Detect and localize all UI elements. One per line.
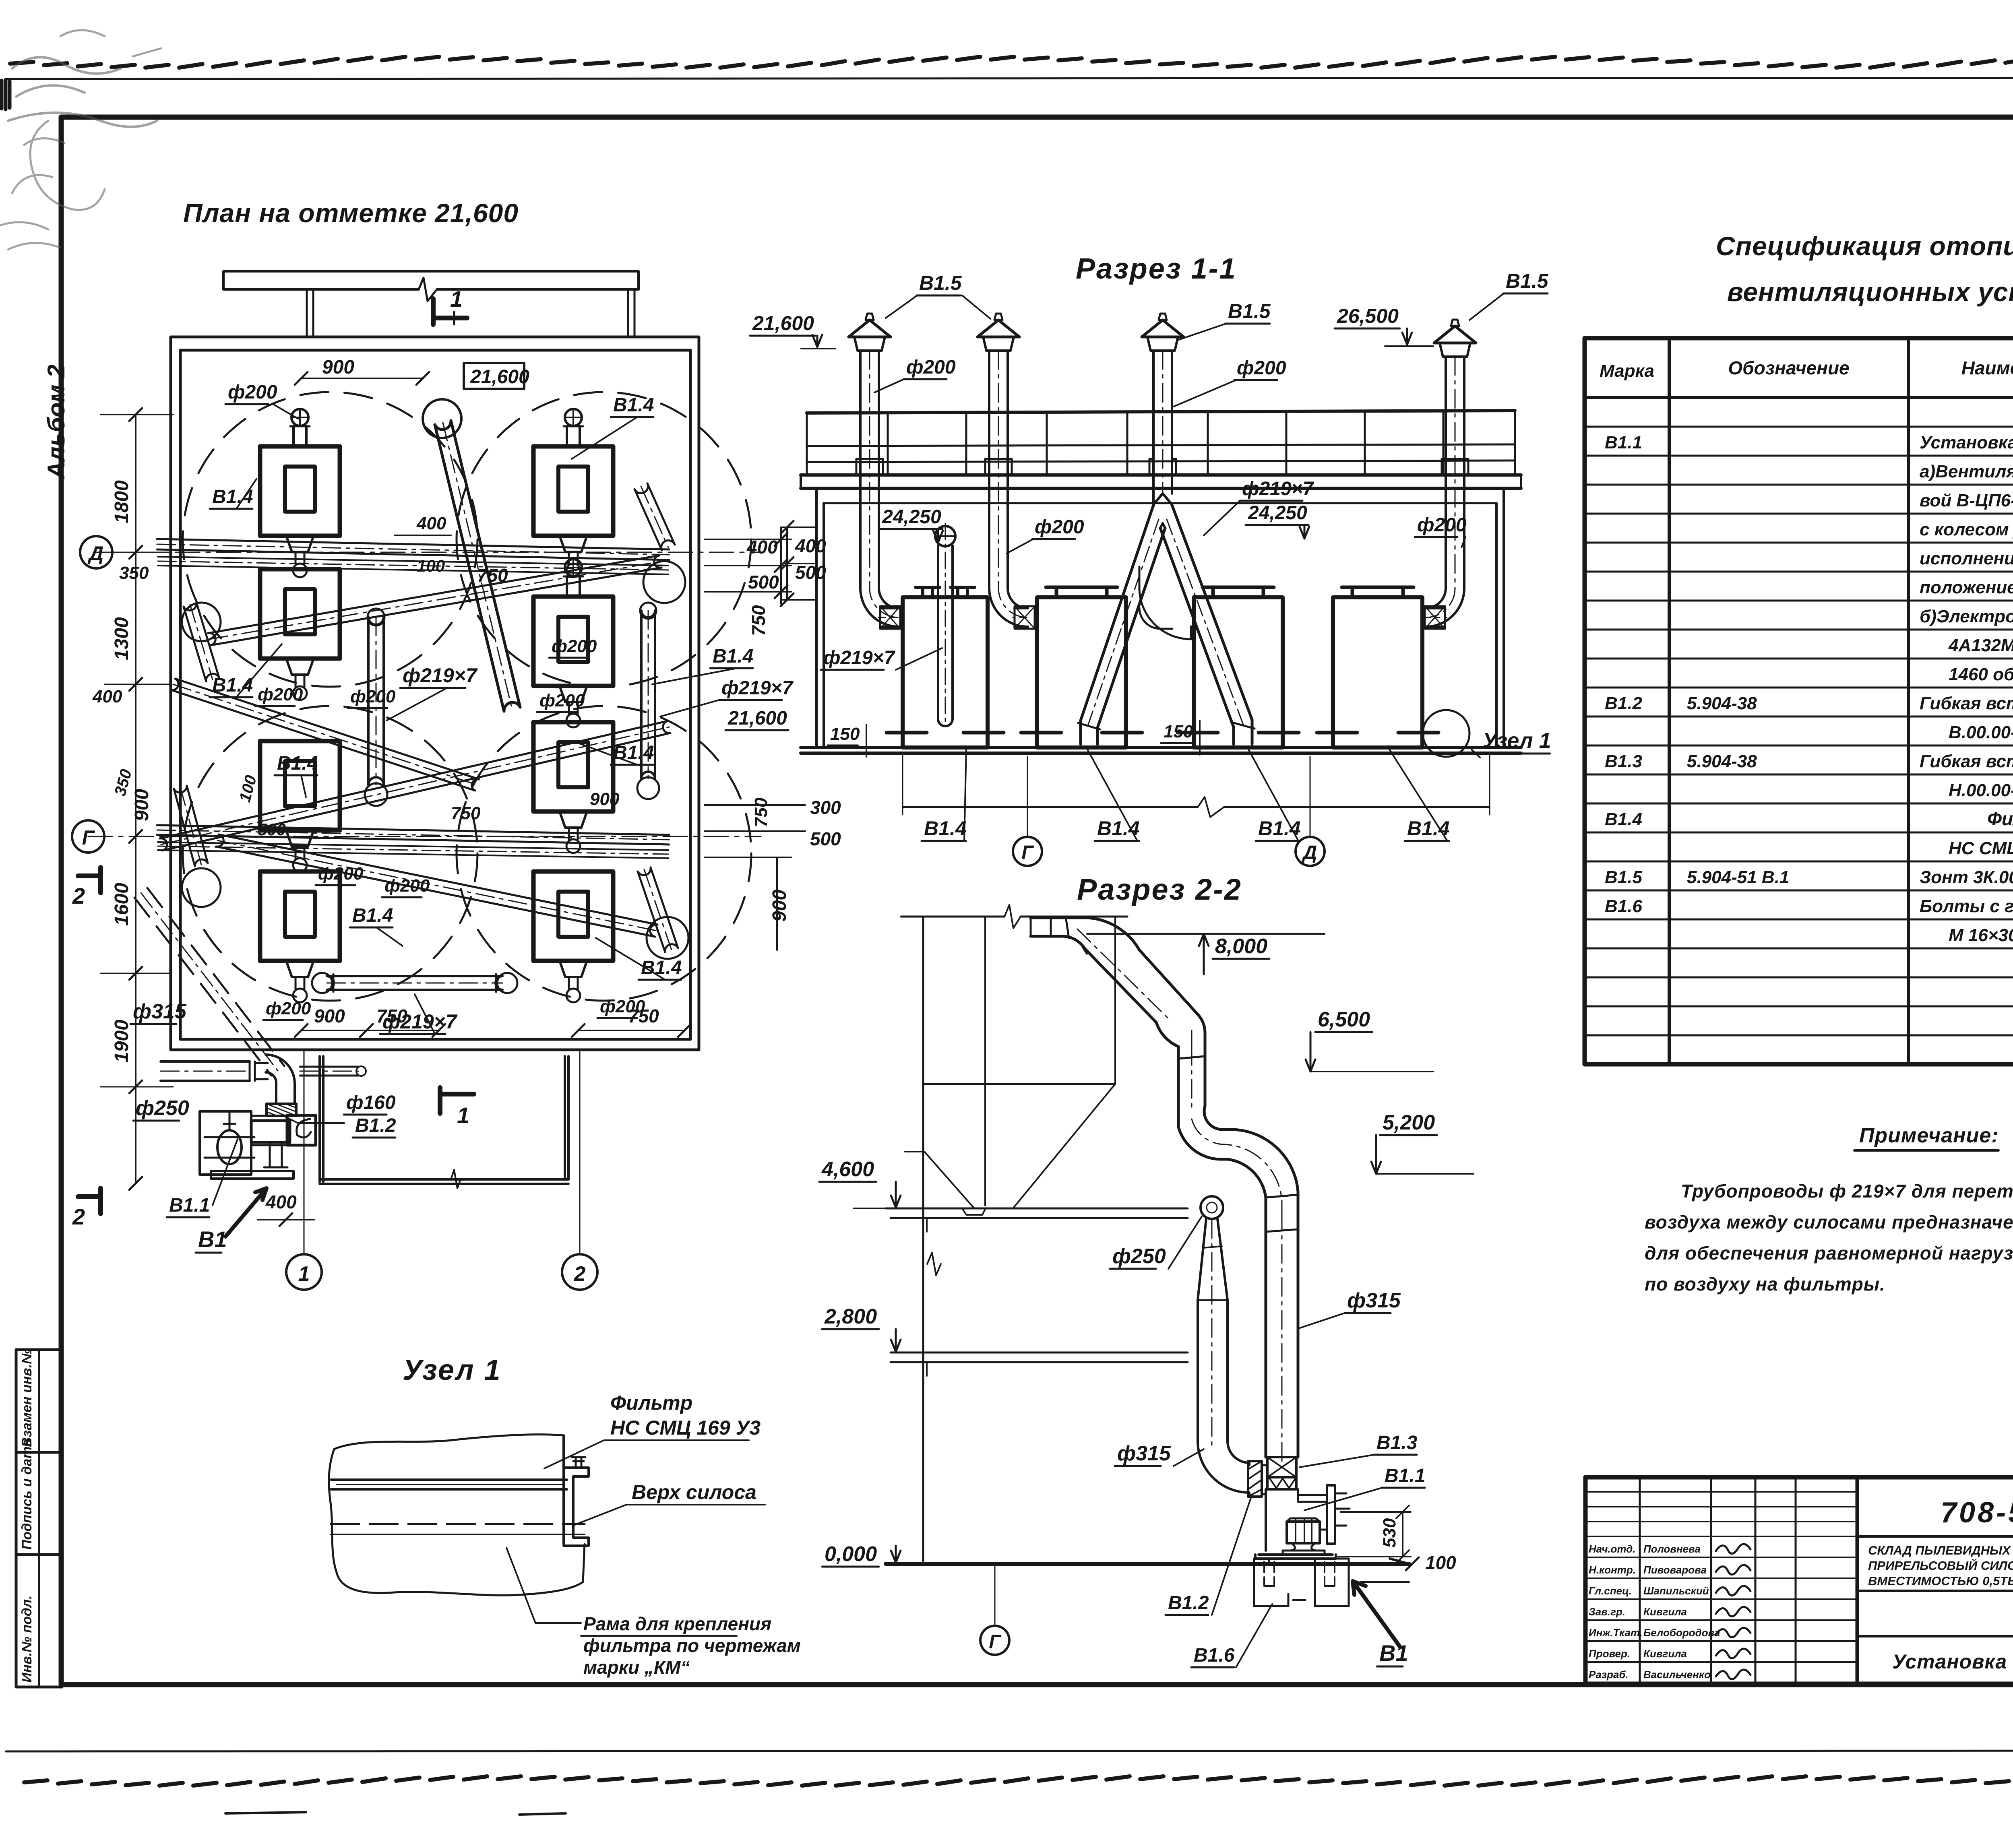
svg-text:Г: Г bbox=[1021, 842, 1034, 863]
svg-text:Зонт 3К.00.00: Зонт 3К.00.00 bbox=[1920, 867, 2013, 887]
svg-text:ф200: ф200 bbox=[318, 864, 364, 884]
svg-text:5.904-51 В.1: 5.904-51 В.1 bbox=[1687, 867, 1789, 887]
rope line bottom bbox=[24, 1776, 2013, 1786]
svg-text:Узел 1: Узел 1 bbox=[403, 1354, 502, 1386]
svg-text:21,600: 21,600 bbox=[470, 366, 529, 388]
svg-text:24,250: 24,250 bbox=[882, 506, 941, 528]
svg-text:В1: В1 bbox=[1379, 1640, 1408, 1666]
motor bbox=[1287, 1522, 1320, 1543]
label rama bbox=[419, 1548, 801, 1678]
horizontal pipe 219x7 bottom bbox=[327, 989, 502, 991]
silo circle bbox=[457, 706, 751, 1001]
fan B1.1 plan bbox=[200, 1111, 316, 1179]
axis G circle s22 bbox=[980, 1626, 1009, 1655]
svg-text:Нач.отд.: Нач.отд. bbox=[1589, 1543, 1636, 1555]
svg-text:5.904-38: 5.904-38 bbox=[1687, 752, 1757, 771]
svg-text:В1.4: В1.4 bbox=[1407, 817, 1450, 840]
dim 900 top bbox=[301, 378, 423, 379]
svg-text:Спецификация отопительно-: Спецификация отопительно- bbox=[1716, 231, 2013, 261]
svg-text:Кивгила: Кивгила bbox=[1643, 1648, 1687, 1660]
vertical pipe 219x7 left bbox=[367, 617, 370, 785]
platform slab bbox=[801, 475, 1521, 488]
svg-text:Г: Г bbox=[82, 826, 95, 849]
svg-text:В1.4: В1.4 bbox=[1605, 809, 1642, 829]
stub pipe left top bbox=[184, 607, 206, 681]
silo circle bbox=[183, 392, 477, 687]
tank filter B1.4 bbox=[887, 587, 1004, 747]
pipe diagonal G right down bbox=[216, 847, 655, 937]
dims 400 500 bbox=[781, 527, 817, 600]
svg-text:Установка в составе:: Установка в составе: bbox=[1920, 433, 2013, 452]
svg-text:для обеспечения равномерной: для обеспечения равномерной нагрузки bbox=[1645, 1243, 2013, 1264]
vertical pipe 219x7 right bbox=[640, 611, 643, 778]
svg-text:М 16×300: М 16×300 bbox=[1949, 925, 2013, 945]
svg-text:фильтра по чертежам: фильтра по чертежам bbox=[583, 1635, 801, 1656]
silo dashed line bbox=[331, 1523, 585, 1525]
svg-text:ф200: ф200 bbox=[1035, 516, 1084, 538]
table row 15 bbox=[1949, 838, 2013, 858]
svg-text:В1.4: В1.4 bbox=[613, 394, 654, 416]
ceiling line 8000 bbox=[901, 905, 1127, 928]
svg-text:150: 150 bbox=[1164, 722, 1193, 741]
floor 4600 slab bbox=[886, 1208, 1188, 1232]
svg-text:300: 300 bbox=[810, 797, 841, 818]
svg-text:В1.4: В1.4 bbox=[1258, 817, 1301, 840]
table row 12 bbox=[1605, 752, 2013, 771]
svg-text:В1.2: В1.2 bbox=[355, 1115, 396, 1136]
filter B1.4 bbox=[260, 871, 340, 1002]
svg-text:2,800: 2,800 bbox=[824, 1305, 877, 1328]
svg-text:марки „КМ“: марки „КМ“ bbox=[583, 1657, 690, 1678]
section mark 1 bottom bbox=[440, 1088, 474, 1128]
section mark 1 top bbox=[433, 286, 467, 324]
axis G circle bbox=[72, 820, 104, 853]
svg-text:8,000: 8,000 bbox=[1215, 935, 1267, 958]
svg-text:В.00.00-09: В.00.00-09 bbox=[1949, 723, 2013, 742]
pipe diagonal G long bbox=[162, 733, 670, 851]
svg-text:Н.00.00-09: Н.00.00-09 bbox=[1949, 780, 2013, 800]
duct f200 to lambda bbox=[1149, 351, 1176, 506]
filter frame channel bbox=[564, 1435, 589, 1546]
svg-text:900: 900 bbox=[590, 789, 620, 809]
wall below plan bbox=[320, 1056, 568, 1188]
svg-text:24,250: 24,250 bbox=[1248, 502, 1307, 524]
svg-text:В1.3: В1.3 bbox=[1376, 1432, 1418, 1454]
svg-text:Кивгила: Кивгила bbox=[1643, 1606, 1687, 1618]
scan mark left edge bbox=[2, 80, 10, 109]
stub pipe right G bbox=[638, 871, 665, 952]
svg-text:ф315: ф315 bbox=[1117, 1442, 1171, 1465]
wall top bbox=[223, 271, 639, 337]
dim 530 bbox=[1336, 1505, 1411, 1563]
tank filter B1.4 bbox=[1021, 587, 1142, 747]
svg-text:Д: Д bbox=[1302, 842, 1317, 863]
pedestal bbox=[1291, 1543, 1316, 1551]
vent B1.5 umbrella bbox=[849, 314, 891, 351]
svg-text:Гибкая вставка: Гибкая вставка bbox=[1920, 752, 2013, 771]
svg-text:1: 1 bbox=[457, 1103, 469, 1128]
svg-text:4,600: 4,600 bbox=[821, 1158, 874, 1181]
plan outer wall bbox=[171, 337, 699, 1050]
table row 8 bbox=[1948, 636, 2013, 655]
duct S-bend bbox=[1178, 1127, 1266, 1210]
svg-text:Инж.Ткат.: Инж.Ткат. bbox=[1589, 1627, 1643, 1639]
duct elbow to fan bbox=[1198, 1441, 1249, 1494]
svg-text:Половнева: Половнева bbox=[1643, 1543, 1701, 1555]
svg-text:150: 150 bbox=[830, 724, 860, 744]
vent B1.5 umbrella bbox=[978, 314, 1019, 351]
svg-text:а)Вентилятор пыле-: а)Вентилятор пыле- bbox=[1920, 462, 2013, 481]
svg-text:900: 900 bbox=[769, 890, 790, 922]
svg-text:ф219×7: ф219×7 bbox=[403, 664, 478, 687]
svg-text:ф200: ф200 bbox=[258, 685, 303, 704]
table row 17 bbox=[1605, 896, 2013, 916]
svg-text:НС СМЦ 169 У3: НС СМЦ 169 У3 bbox=[1949, 838, 2013, 858]
table row 1 bbox=[1605, 433, 2013, 452]
svg-text:400: 400 bbox=[92, 687, 122, 706]
stub pipe right top bbox=[634, 489, 662, 550]
filter B1.4 bbox=[533, 559, 613, 727]
svg-text:100: 100 bbox=[236, 773, 260, 804]
railing bbox=[807, 411, 1515, 475]
elbow to fan bbox=[266, 1055, 295, 1104]
svg-text:СКЛАД ПЫЛЕВИДНЫХ СТРОИТЕЛЬН: СКЛАД ПЫЛЕВИДНЫХ СТРОИТЕЛЬНЫХ МАТЕРИАЛОВ bbox=[1868, 1543, 2013, 1557]
pipe diagonal D right bbox=[211, 568, 661, 645]
svg-text:ф200: ф200 bbox=[1417, 514, 1467, 536]
duct f250 circle bbox=[1201, 1196, 1223, 1219]
svg-text:400: 400 bbox=[416, 514, 446, 533]
svg-text:400: 400 bbox=[795, 535, 826, 556]
svg-text:ф250: ф250 bbox=[1112, 1245, 1166, 1268]
svg-text:Разраб.: Разраб. bbox=[1589, 1668, 1629, 1681]
table row 5 bbox=[1920, 549, 2013, 568]
left stamp boxes bbox=[16, 1348, 62, 1687]
table row 11 bbox=[1949, 723, 2013, 742]
section mark 2 left bottom bbox=[72, 1188, 101, 1229]
svg-text:500: 500 bbox=[795, 562, 826, 583]
pipe bundle axis G bbox=[157, 835, 669, 845]
stub pipe left mid bbox=[174, 789, 195, 866]
svg-text:Васильченко: Васильченко bbox=[1643, 1668, 1711, 1681]
vent B1.5 umbrella bbox=[1142, 314, 1184, 351]
vent B1.5 umbrella bbox=[1434, 320, 1476, 357]
filter B1.4 bbox=[260, 741, 340, 872]
svg-text:Узел 1: Узел 1 bbox=[1482, 729, 1551, 753]
svg-text:100: 100 bbox=[417, 556, 445, 575]
riser pipe plan center bbox=[423, 399, 461, 438]
svg-text:1460 об/мин: 1460 об/мин bbox=[1949, 665, 2013, 684]
svg-text:ПРИРЕЛЬСОВЫЙ СИЛОСНОГО ТИПА: ПРИРЕЛЬСОВЫЙ СИЛОСНОГО ТИПА (МОБИЛЬНЫЙ) bbox=[1868, 1558, 2013, 1573]
svg-text:б)Электродвигатель: б)Электродвигатель bbox=[1920, 607, 2013, 626]
svg-text:Рама для крепления: Рама для крепления bbox=[583, 1613, 771, 1634]
floor 2800 slab bbox=[891, 1352, 1188, 1376]
label filter bbox=[444, 1392, 761, 1468]
svg-text:ВМЕСТИМОСТЬЮ 0,5ТЫС·Т.: ВМЕСТИМОСТЬЮ 0,5ТЫС·Т. bbox=[1868, 1574, 2013, 1588]
svg-text:Инв.№ подл.: Инв.№ подл. bbox=[19, 1595, 35, 1683]
silo walls bbox=[905, 917, 1115, 1561]
uzel blob outline bbox=[329, 1435, 585, 1596]
svg-text:ф200: ф200 bbox=[1237, 357, 1286, 379]
svg-text:В1.5: В1.5 bbox=[1228, 300, 1271, 322]
filter B1.4 bbox=[533, 871, 613, 1002]
svg-text:В1.4: В1.4 bbox=[613, 742, 654, 764]
scan noise top left bbox=[8, 57, 157, 127]
svg-text:26,500: 26,500 bbox=[1337, 305, 1399, 327]
foundation bolts B1.6 bbox=[1254, 1559, 1349, 1606]
svg-text:Болты с гайками: Болты с гайками bbox=[1920, 896, 2013, 916]
pipe 219x7 vertical bbox=[935, 523, 955, 726]
svg-text:В1.4: В1.4 bbox=[352, 905, 393, 926]
svg-text:Разрез 2-2: Разрез 2-2 bbox=[1077, 873, 1242, 906]
spec table grid bbox=[1585, 338, 2013, 1064]
table row 10 bbox=[1605, 694, 2013, 713]
table row 13 bbox=[1949, 780, 2013, 800]
svg-text:Трубопроводы ф 219×7 для пе: Трубопроводы ф 219×7 для перетока bbox=[1681, 1181, 2013, 1202]
dim right 400 500 bbox=[705, 539, 791, 592]
svg-text:2: 2 bbox=[574, 1262, 586, 1286]
notes text bbox=[1645, 1181, 2013, 1295]
svg-text:Подпись и дата: Подпись и дата bbox=[19, 1439, 35, 1550]
fan B1.1 bbox=[1255, 1465, 1350, 1559]
svg-text:В1.6: В1.6 bbox=[1605, 896, 1642, 916]
duct top horizontal bbox=[1031, 918, 1298, 1461]
pipe 315 dashed diagonal bbox=[134, 898, 271, 1076]
filter B1.4 bbox=[533, 409, 613, 577]
svg-text:НС СМЦ 169 У3: НС СМЦ 169 У3 bbox=[610, 1416, 761, 1439]
duct f200 bbox=[985, 351, 1035, 629]
svg-text:Фильтр: Фильтр bbox=[1987, 808, 2013, 829]
table row 18 bbox=[1949, 925, 2013, 945]
svg-text:Верх силоса: Верх силоса bbox=[632, 1481, 756, 1503]
svg-text:В1.2: В1.2 bbox=[1168, 1592, 1209, 1614]
scan marks below bottom border bbox=[225, 1812, 566, 1815]
filter B1.4 bbox=[260, 569, 340, 700]
axis D line bbox=[93, 552, 761, 553]
svg-text:Г: Г bbox=[989, 1631, 1002, 1653]
silo circle bbox=[183, 706, 477, 1001]
svg-text:21,600: 21,600 bbox=[752, 312, 814, 334]
title block bbox=[1585, 1477, 2013, 1684]
svg-text:Обозначение: Обозначение bbox=[1728, 357, 1849, 378]
svg-text:Марка: Марка bbox=[1600, 361, 1654, 381]
svg-text:750: 750 bbox=[628, 1006, 659, 1026]
svg-text:2: 2 bbox=[72, 883, 85, 909]
svg-text:ф200: ф200 bbox=[552, 636, 597, 656]
lambda pipe 219x7 bbox=[1078, 493, 1255, 747]
tank filter B1.4 bbox=[1317, 587, 1438, 747]
svg-text:В1.6: В1.6 bbox=[1194, 1645, 1235, 1666]
filter B1.4 bbox=[260, 409, 340, 577]
svg-text:1900: 1900 bbox=[111, 1020, 132, 1063]
label verh silosa bbox=[575, 1481, 765, 1525]
svg-text:ф250: ф250 bbox=[136, 1096, 189, 1120]
fan discharge + flange bbox=[1298, 1495, 1327, 1502]
axis G circle s11 bbox=[1013, 837, 1042, 866]
svg-text:ф219×7: ф219×7 bbox=[721, 677, 794, 699]
filter B1.4 bbox=[533, 722, 613, 853]
rope line top bbox=[10, 57, 2013, 68]
svg-text:вой В-ЦП6-45-5: вой В-ЦП6-45-5 bbox=[1920, 491, 2013, 510]
svg-text:ф160: ф160 bbox=[346, 1092, 396, 1113]
svg-text:Пивоварова: Пивоварова bbox=[1643, 1564, 1707, 1576]
svg-text:5.904-38: 5.904-38 bbox=[1687, 694, 1757, 713]
svg-text:2: 2 bbox=[72, 1204, 85, 1229]
svg-text:В1.4: В1.4 bbox=[212, 486, 253, 508]
table row 4 bbox=[1920, 520, 2013, 539]
svg-text:0,000: 0,000 bbox=[825, 1542, 877, 1566]
svg-text:900: 900 bbox=[131, 789, 153, 821]
svg-text:исполнение 6: исполнение 6 bbox=[1920, 549, 2013, 568]
dim 8,000 bbox=[1087, 933, 1325, 935]
flex insert B1.3 bbox=[1267, 1457, 1296, 1489]
svg-text:5,200: 5,200 bbox=[1383, 1111, 1435, 1134]
duct f250-315 taper bbox=[1198, 1219, 1249, 1494]
svg-text:Н.контр.: Н.контр. bbox=[1589, 1564, 1636, 1576]
svg-text:ф200: ф200 bbox=[228, 382, 277, 403]
svg-text:с колесом Д = Дном: с колесом Д = Дном bbox=[1920, 520, 2013, 539]
svg-text:В1.5: В1.5 bbox=[1605, 867, 1642, 887]
svg-text:В1.4: В1.4 bbox=[641, 957, 682, 979]
svg-text:ф200: ф200 bbox=[266, 999, 311, 1018]
uzel 1 circle bbox=[1423, 710, 1469, 757]
duct vertical 1 bbox=[1178, 1039, 1205, 1127]
svg-text:ф200: ф200 bbox=[384, 876, 430, 896]
svg-text:750: 750 bbox=[477, 565, 508, 586]
svg-text:750: 750 bbox=[751, 797, 771, 827]
tank filter B1.4 bbox=[1178, 587, 1299, 747]
axis G line bbox=[88, 836, 761, 837]
dim vertical left bbox=[135, 415, 136, 1183]
svg-text:ф315: ф315 bbox=[133, 1000, 187, 1023]
duct vertical 2 f315 bbox=[1266, 1210, 1298, 1457]
svg-text:положение Пр0°: положение Пр0° bbox=[1920, 578, 2013, 597]
flex insert B1.2 plan bbox=[267, 1104, 296, 1116]
svg-text:1300: 1300 bbox=[111, 617, 132, 660]
flex insert B1.2 bbox=[1248, 1461, 1262, 1497]
svg-text:500: 500 bbox=[748, 572, 779, 593]
room walls bbox=[801, 488, 1521, 753]
svg-text:Альбом 2: Альбом 2 bbox=[43, 364, 70, 480]
svg-text:ф200: ф200 bbox=[350, 687, 396, 706]
svg-text:530: 530 bbox=[1380, 1518, 1399, 1548]
dim line bottom bbox=[903, 806, 1490, 808]
duct 250 bbox=[161, 1080, 250, 1082]
svg-text:В1.5: В1.5 bbox=[919, 272, 962, 294]
svg-text:750: 750 bbox=[376, 1006, 407, 1026]
axis 2 circle bbox=[562, 1050, 597, 1290]
duct f200 bbox=[1425, 357, 1468, 629]
svg-text:В1.2: В1.2 bbox=[1605, 694, 1642, 713]
svg-text:по воздуху на фильтры.: по воздуху на фильтры. bbox=[1645, 1274, 1885, 1295]
svg-text:Примечание:: Примечание: bbox=[1859, 1124, 1999, 1147]
svg-text:В1.3: В1.3 bbox=[1605, 752, 1642, 771]
svg-text:Взамен инв.№: Взамен инв.№ bbox=[19, 1348, 35, 1447]
svg-text:100: 100 bbox=[1425, 1552, 1456, 1573]
pipe diagonal left down bbox=[171, 690, 475, 791]
svg-text:Наименование: Наименование bbox=[1961, 357, 2013, 378]
svg-text:6,500: 6,500 bbox=[1318, 1008, 1370, 1031]
table row 16 bbox=[1605, 867, 2013, 887]
svg-text:4А132М4 11квт,: 4А132М4 11квт, bbox=[1948, 636, 2013, 655]
silo circle bbox=[457, 392, 751, 687]
axis D circle bbox=[80, 536, 112, 568]
baseplate bbox=[1255, 1555, 1336, 1559]
pipe bundle axis D bbox=[157, 549, 669, 560]
dim right 300 500 900 bbox=[705, 805, 805, 857]
svg-text:900: 900 bbox=[314, 1006, 345, 1026]
svg-text:Фильтр: Фильтр bbox=[610, 1392, 692, 1414]
duct elbow + diagonal bbox=[1087, 918, 1205, 1039]
elevation box 21,600 bbox=[464, 363, 529, 389]
svg-text:В1.1: В1.1 bbox=[1385, 1465, 1425, 1487]
svg-text:750: 750 bbox=[748, 605, 769, 636]
svg-text:В1: В1 bbox=[198, 1226, 227, 1252]
svg-text:ф315: ф315 bbox=[1347, 1289, 1401, 1312]
svg-text:В1.4: В1.4 bbox=[277, 753, 318, 774]
svg-text:1600: 1600 bbox=[111, 883, 132, 926]
svg-text:Шапильский: Шапильский bbox=[1643, 1585, 1709, 1597]
table row 3 bbox=[1920, 491, 2013, 510]
svg-text:1800: 1800 bbox=[111, 480, 132, 523]
table row 7 bbox=[1920, 607, 2013, 626]
svg-text:750: 750 bbox=[451, 803, 481, 823]
table row 9 bbox=[1949, 665, 2013, 684]
svg-text:В1.1: В1.1 bbox=[169, 1195, 210, 1216]
silo top plate bbox=[331, 1480, 567, 1489]
svg-text:вентиляционных установок: вентиляционных установок bbox=[1727, 277, 2013, 307]
svg-text:Гл.спец.: Гл.спец. bbox=[1589, 1585, 1632, 1597]
svg-text:Гибкая вставка: Гибкая вставка bbox=[1920, 694, 2013, 713]
duct f200 bbox=[856, 351, 900, 629]
svg-text:Зав.гр.: Зав.гр. bbox=[1589, 1606, 1625, 1618]
svg-text:400: 400 bbox=[746, 537, 778, 557]
floor 0000 bbox=[886, 1562, 1409, 1566]
svg-text:21,600: 21,600 bbox=[727, 708, 787, 729]
svg-text:900: 900 bbox=[322, 357, 354, 378]
axis D circle s11 bbox=[1296, 837, 1325, 866]
svg-text:Белобородова: Белобородова bbox=[1643, 1627, 1720, 1639]
junction circles bbox=[182, 603, 221, 641]
svg-text:В1.5: В1.5 bbox=[1506, 270, 1549, 292]
svg-text:Провер.: Провер. bbox=[1589, 1648, 1630, 1660]
svg-text:708-57. 90: 708-57. 90 bbox=[1941, 1497, 2013, 1529]
table row 2 bbox=[1920, 462, 2013, 481]
svg-text:500: 500 bbox=[258, 820, 286, 839]
svg-text:1: 1 bbox=[450, 286, 463, 312]
svg-text:В1.4: В1.4 bbox=[1097, 817, 1140, 840]
svg-text:400: 400 bbox=[265, 1191, 297, 1212]
svg-text:ф200: ф200 bbox=[906, 357, 956, 378]
table row 14 bbox=[1605, 808, 2013, 829]
svg-text:воздуха между силосами пред: воздуха между силосами предназначены bbox=[1645, 1212, 2013, 1233]
svg-text:В1.1: В1.1 bbox=[1605, 433, 1642, 452]
duct 160 bbox=[300, 1075, 358, 1077]
svg-text:В1.4: В1.4 bbox=[713, 646, 753, 667]
svg-text:ф200: ф200 bbox=[539, 691, 585, 710]
svg-text:Д: Д bbox=[87, 542, 103, 565]
section mark 2 left top bbox=[72, 867, 101, 909]
axis 1 circle bbox=[286, 1050, 322, 1290]
svg-text:В1.4: В1.4 bbox=[924, 817, 967, 840]
svg-text:1: 1 bbox=[298, 1262, 310, 1286]
svg-text:500: 500 bbox=[810, 828, 841, 849]
thin border top bbox=[6, 78, 2013, 79]
notes title bbox=[1854, 1124, 1999, 1150]
svg-text:ф219×7: ф219×7 bbox=[1242, 478, 1314, 500]
svg-text:350: 350 bbox=[119, 563, 149, 583]
svg-text:Разрез 1-1: Разрез 1-1 bbox=[1076, 253, 1237, 285]
svg-text:ф219×7: ф219×7 bbox=[823, 647, 896, 669]
